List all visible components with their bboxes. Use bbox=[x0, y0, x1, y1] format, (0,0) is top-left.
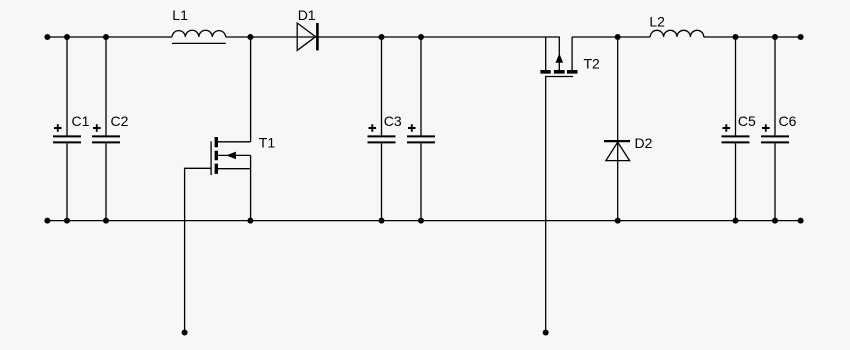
inductor L1 bbox=[172, 7, 226, 43]
junction C5 top bbox=[733, 34, 739, 40]
capacitor C2 bbox=[92, 37, 129, 221]
junction C6 bottom bbox=[772, 218, 778, 224]
capacitor C3 bbox=[368, 37, 402, 221]
junction T1 drain bbox=[247, 34, 253, 40]
junction C2 bottom bbox=[103, 218, 109, 224]
wire top rail right bbox=[572, 36, 650, 38]
junction T1 source bbox=[247, 218, 253, 224]
svg-text:D2: D2 bbox=[635, 135, 653, 151]
junction C3 bottom bbox=[379, 218, 385, 224]
node T1 gate terminal bbox=[182, 330, 188, 336]
junction C4 top bbox=[418, 34, 424, 40]
svg-text:D1: D1 bbox=[298, 7, 316, 23]
junction C5 bottom bbox=[733, 218, 739, 224]
svg-text:L1: L1 bbox=[172, 7, 188, 23]
junction C1 top bbox=[64, 34, 70, 40]
svg-text:T1: T1 bbox=[259, 135, 276, 151]
diode D2 bbox=[604, 37, 653, 221]
wire top rail far right bbox=[704, 36, 801, 38]
junction C6 top bbox=[772, 34, 778, 40]
wire bottom rail bbox=[47, 220, 800, 222]
wire top rail mid bbox=[226, 36, 560, 38]
svg-text:C3: C3 bbox=[384, 113, 402, 129]
svg-text:C6: C6 bbox=[779, 113, 797, 129]
svg-text:C5: C5 bbox=[738, 113, 756, 129]
svg-text:C1: C1 bbox=[72, 113, 90, 129]
node output bottom bbox=[798, 218, 804, 224]
capacitor C4 (unlabeled) bbox=[407, 37, 435, 221]
diode D1 bbox=[297, 7, 317, 50]
junction C3 top bbox=[379, 34, 385, 40]
svg-text:T2: T2 bbox=[584, 55, 601, 71]
node input top bbox=[44, 34, 50, 40]
node input bottom bbox=[44, 218, 50, 224]
junction D2 bottom bbox=[615, 218, 621, 224]
transistor T2 bbox=[540, 37, 600, 333]
junction C2 top bbox=[103, 34, 109, 40]
svg-text:C2: C2 bbox=[111, 113, 129, 129]
capacitor C1 bbox=[53, 37, 90, 221]
capacitor C6 bbox=[761, 37, 797, 221]
wire top rail left bbox=[47, 36, 172, 38]
junction C4 bottom bbox=[418, 218, 424, 224]
junction C1 bottom bbox=[64, 218, 70, 224]
node T2 gate terminal bbox=[543, 330, 549, 336]
transistor T1 bbox=[185, 37, 276, 333]
node output top bbox=[798, 34, 804, 40]
junction D2 top bbox=[615, 34, 621, 40]
capacitor C5 bbox=[722, 37, 757, 221]
svg-text:L2: L2 bbox=[649, 14, 665, 30]
inductor L2 bbox=[649, 14, 703, 37]
